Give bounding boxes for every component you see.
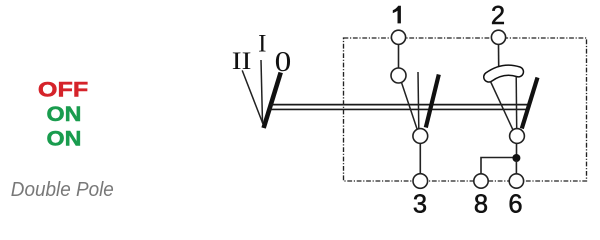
- wire terminal2 to bridge contact: [498, 45, 500, 67]
- linkage bar lower line: [269, 108, 528, 110]
- wire junction to terminal 6: [515, 160, 517, 174]
- pole2 pivot circle: [510, 129, 525, 144]
- linkage bar upper line: [271, 104, 530, 106]
- svg-text:0: 0: [275, 45, 292, 77]
- pole1 pivot circle: [413, 129, 428, 144]
- terminal 6: [509, 174, 523, 188]
- pole1 position II contact line: [402, 83, 418, 129]
- svg-text:Double Pole: Double Pole: [11, 179, 114, 201]
- switch body dashed box: [344, 38, 587, 181]
- terminal 8: [474, 174, 488, 188]
- pole1 position I contact line: [417, 72, 420, 129]
- wire pivot to junction: [516, 144, 518, 159]
- terminal label 1: [393, 6, 401, 24]
- terminal 1: [391, 30, 405, 44]
- svg-text:6: 6: [508, 191, 522, 216]
- terminal 3: [413, 174, 428, 189]
- svg-text:ON: ON: [47, 103, 82, 126]
- svg-text:2: 2: [491, 2, 505, 30]
- lever blade (position 0): [264, 73, 281, 129]
- pole2 position I contact line: [515, 77, 518, 129]
- svg-text:I: I: [258, 30, 266, 57]
- svg-text:OFF: OFF: [38, 79, 88, 102]
- svg-text:3: 3: [413, 191, 427, 216]
- junction wire to terminal 8: [481, 158, 517, 174]
- svg-text:8: 8: [474, 191, 488, 216]
- pole2 position II contact line: [491, 82, 514, 131]
- wire pivot to terminal 3: [419, 144, 421, 174]
- svg-text:ON: ON: [47, 128, 82, 151]
- lever position label 0: [275, 45, 292, 77]
- lever position II line: [242, 70, 263, 124]
- pole1 fixed contact circle: [391, 68, 406, 83]
- pole2 blade (position 0): [522, 78, 538, 129]
- pole2 bridge contact (bean): [489, 70, 519, 77]
- pole1 blade (position 0): [426, 75, 439, 128]
- wire terminal1 to contact: [398, 45, 400, 69]
- lever position I line: [261, 60, 263, 123]
- terminal 2: [491, 30, 505, 44]
- junction dot: [512, 154, 520, 162]
